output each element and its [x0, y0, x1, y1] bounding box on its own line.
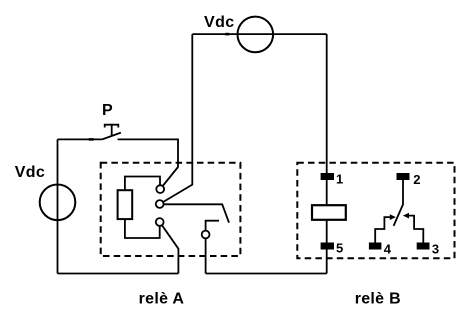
pin 3 [417, 243, 430, 250]
svg-text:Vdc: Vdc [15, 164, 46, 181]
wire coil A bottom jog [125, 219, 160, 238]
wire relay A fixed contact stub [206, 221, 219, 231]
relay A bottom contact terminal [156, 218, 164, 226]
svg-text:3: 3 [432, 242, 439, 257]
wire bottom-right rail to pin 5 [206, 273, 327, 275]
voltage source Vdc (left) [40, 185, 76, 221]
svg-text:4: 4 [384, 242, 392, 257]
junction mark on pushbutton wire [89, 138, 94, 141]
wire relay A bottom contact diagonal down [162, 225, 178, 273]
relay A dashed enclosure [101, 163, 241, 256]
pin 1 [321, 173, 334, 180]
svg-text:5: 5 [336, 241, 343, 256]
wire top-left vertical down to relay A middle contact [163, 34, 192, 202]
relay A lower switch terminal [202, 231, 210, 239]
voltage source Vdc (top) [238, 17, 274, 53]
wire bottom-left rail [58, 273, 179, 275]
pushbutton P moving contact arm [102, 133, 121, 140]
relay A middle contact terminal [156, 200, 164, 208]
wire left Vdc branch vertical [57, 139, 59, 273]
wire pin 3 staircase [409, 216, 424, 243]
svg-text:relè A: relè A [139, 290, 185, 307]
pin 5 [321, 243, 334, 250]
relay A coil [118, 190, 133, 219]
relay A top contact terminal [156, 185, 164, 193]
svg-text:1: 1 [336, 171, 343, 186]
relay B coil [312, 205, 346, 220]
svg-text:P: P [102, 102, 113, 119]
relay B dashed enclosure [297, 163, 454, 258]
wire pin 4 staircase [375, 217, 391, 242]
wire pushbutton to relay A top contact [118, 139, 178, 186]
pushbutton P actuator [105, 125, 119, 136]
wire pin 2 to switch arm of relay B [394, 180, 403, 226]
svg-text:2: 2 [413, 172, 420, 187]
arrowhead toward arm (from pin 4) [390, 214, 396, 220]
svg-text:relè B: relè B [355, 290, 401, 307]
wire relay A middle contact to switch arm [164, 204, 229, 222]
junction mark on top wire [225, 33, 229, 36]
wire top-right vertical down to pin 1 [326, 34, 328, 273]
pin 4 [369, 243, 382, 250]
wire coil A top jog [125, 177, 160, 191]
wire from left Vdc to pushbutton [58, 138, 103, 140]
wire relay A lower contact down to bottom rail [205, 238, 207, 273]
pin 2 [397, 173, 410, 180]
arrowhead toward arm (from pin 3) [403, 213, 409, 219]
svg-text:Vdc: Vdc [204, 14, 235, 31]
wire top horizontal (Vdc loop top) [192, 33, 326, 35]
